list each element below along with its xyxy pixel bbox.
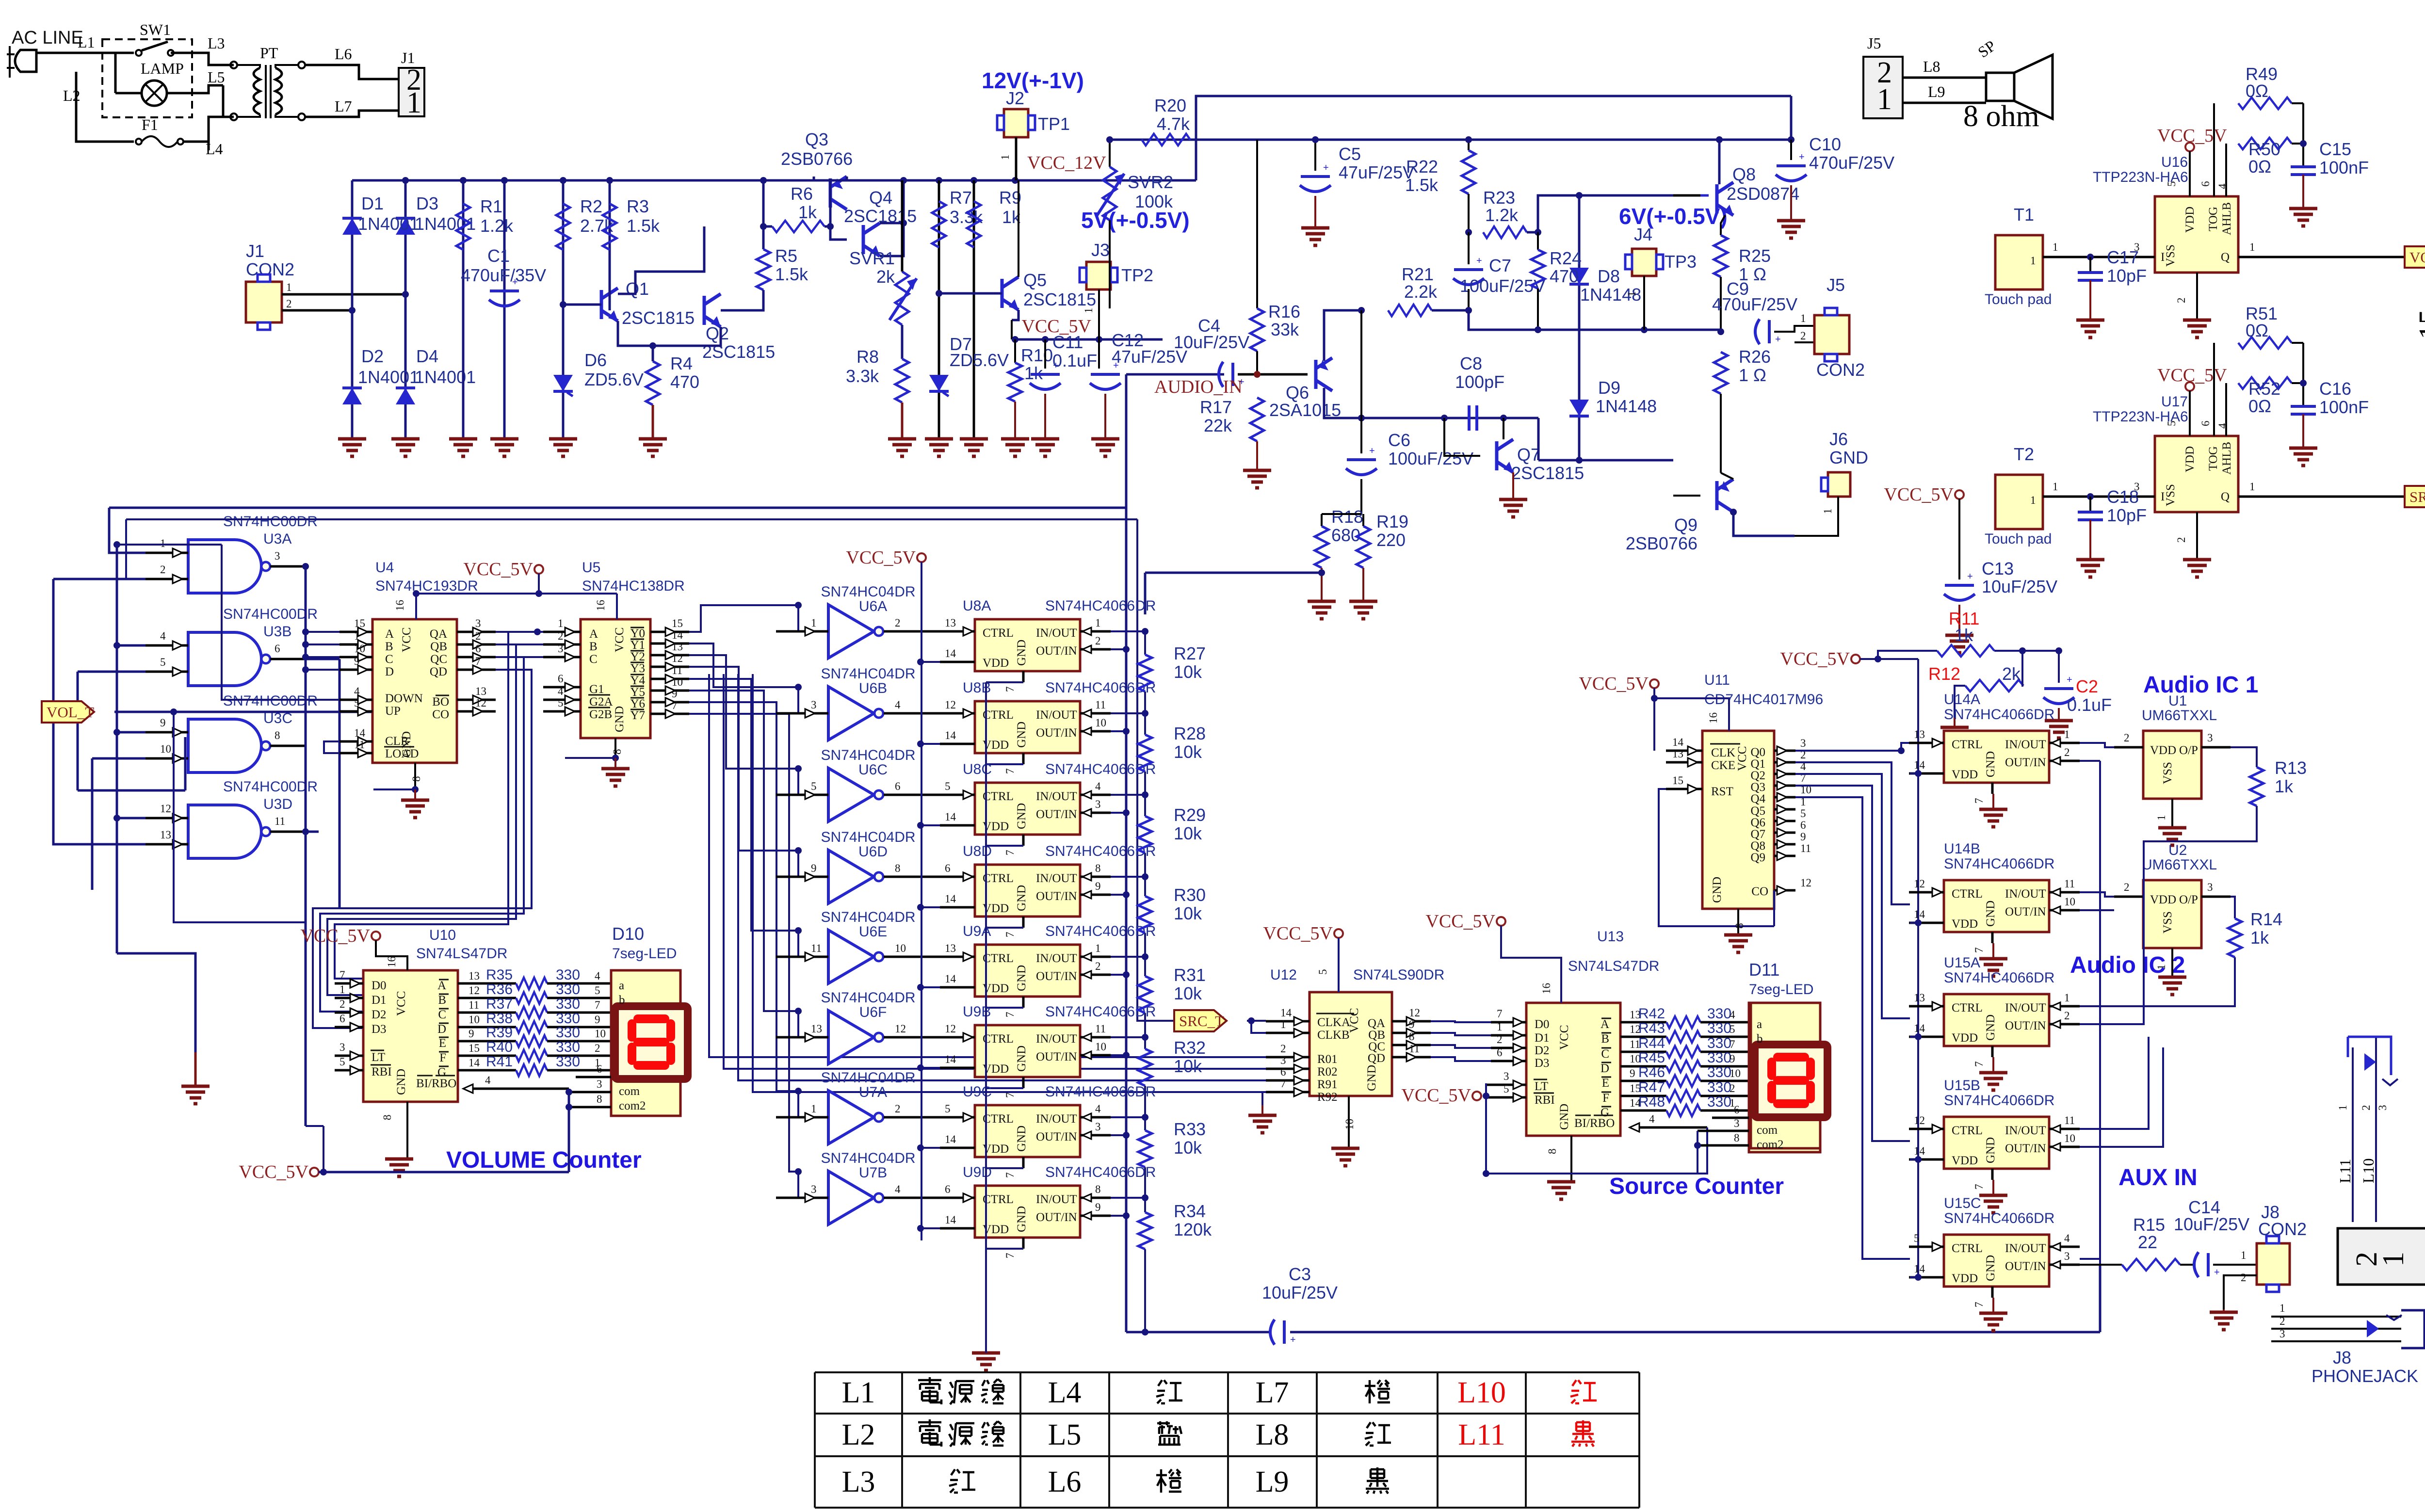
svg-text:L7: L7 xyxy=(1256,1376,1289,1409)
svg-text:+: + xyxy=(1290,1335,1296,1345)
svg-text:VCC: VCC xyxy=(395,991,408,1016)
svg-text:CTRL: CTRL xyxy=(983,952,1014,965)
svg-text:C6: C6 xyxy=(1388,430,1410,450)
svg-text:SN74HC04DR: SN74HC04DR xyxy=(821,747,915,763)
svg-text:7: 7 xyxy=(1730,1038,1735,1050)
svg-text:G2B: G2B xyxy=(589,708,612,721)
svg-text:5: 5 xyxy=(811,780,817,792)
svg-text:2: 2 xyxy=(2360,1105,2372,1111)
svg-text:9: 9 xyxy=(1095,880,1101,892)
svg-text:A: A xyxy=(385,627,394,641)
svg-text:CTRL: CTRL xyxy=(1952,1001,1983,1014)
svg-text:8: 8 xyxy=(1734,1132,1740,1144)
svg-text:11: 11 xyxy=(1095,1023,1106,1035)
svg-text:1: 1 xyxy=(811,617,817,629)
svg-text:Q: Q xyxy=(2221,490,2230,503)
svg-text:3: 3 xyxy=(1800,737,1806,749)
svg-text:0Ω: 0Ω xyxy=(2246,81,2268,101)
svg-text:11: 11 xyxy=(1095,699,1106,711)
svg-text:SVR1: SVR1 xyxy=(849,248,895,268)
svg-text:R02: R02 xyxy=(1317,1065,1338,1078)
svg-text:L6: L6 xyxy=(1048,1465,1082,1498)
svg-text:OUT/IN: OUT/IN xyxy=(1036,644,1077,658)
svg-text:J1: J1 xyxy=(246,241,264,261)
svg-text:L6: L6 xyxy=(335,45,352,63)
svg-text:A: A xyxy=(1600,1018,1609,1031)
svg-text:U6E: U6E xyxy=(859,924,887,940)
svg-text:1: 1 xyxy=(1095,942,1101,954)
svg-text:OUT/IN: OUT/IN xyxy=(1036,726,1077,740)
svg-text:SN74HC4066DR: SN74HC4066DR xyxy=(1045,1084,1156,1100)
svg-text:U13: U13 xyxy=(1597,929,1624,945)
svg-text:2SC1815: 2SC1815 xyxy=(1511,463,1584,483)
svg-text:Y2: Y2 xyxy=(630,650,645,663)
svg-text:QD: QD xyxy=(430,665,447,678)
svg-text:16: 16 xyxy=(394,600,406,611)
svg-text:10: 10 xyxy=(1343,1119,1356,1130)
svg-text:2: 2 xyxy=(160,563,166,576)
svg-text:3.3k: 3.3k xyxy=(846,366,879,386)
svg-text:R3: R3 xyxy=(627,196,649,216)
svg-text:6: 6 xyxy=(2199,421,2212,427)
svg-text:9: 9 xyxy=(1730,1053,1735,1065)
svg-text:330: 330 xyxy=(556,967,580,983)
svg-text:11: 11 xyxy=(2064,878,2075,890)
svg-text:Touch pad: Touch pad xyxy=(1985,531,2052,547)
svg-text:F: F xyxy=(439,1051,446,1064)
svg-text:OUT/IN: OUT/IN xyxy=(1036,1050,1077,1063)
svg-text:6: 6 xyxy=(1734,1104,1740,1116)
svg-text:CTRL: CTRL xyxy=(983,872,1014,885)
svg-text:1: 1 xyxy=(2053,241,2058,253)
svg-text:R27: R27 xyxy=(1174,643,1206,663)
svg-text:5: 5 xyxy=(339,1056,345,1068)
svg-text:GND: GND xyxy=(400,731,413,757)
svg-text:VDD: VDD xyxy=(983,657,1009,670)
svg-text:OUT/IN: OUT/IN xyxy=(2005,1142,2046,1155)
svg-text:D1: D1 xyxy=(361,193,384,213)
svg-text:OUT/IN: OUT/IN xyxy=(2005,756,2046,769)
svg-text:R10: R10 xyxy=(1021,345,1053,365)
svg-text:16: 16 xyxy=(595,600,607,611)
svg-text:4.7k: 4.7k xyxy=(1157,114,1190,134)
svg-text:IN/OUT: IN/OUT xyxy=(1036,708,1077,722)
svg-text:Y3: Y3 xyxy=(630,662,645,675)
svg-text:C16: C16 xyxy=(2319,379,2351,399)
svg-text:R22: R22 xyxy=(1406,157,1438,177)
svg-text:3.3k: 3.3k xyxy=(950,207,983,227)
svg-text:VDD: VDD xyxy=(2183,207,2197,233)
svg-text:CTRL: CTRL xyxy=(1952,1242,1983,1255)
svg-text:GND: GND xyxy=(613,706,626,732)
svg-text:L9: L9 xyxy=(1256,1465,1289,1498)
svg-text:Q4: Q4 xyxy=(869,188,892,208)
svg-text:VSS: VSS xyxy=(2164,244,2177,267)
svg-text:10: 10 xyxy=(2064,896,2075,908)
svg-text:330: 330 xyxy=(556,1039,580,1055)
svg-text:15: 15 xyxy=(2413,309,2425,339)
svg-text:9: 9 xyxy=(1095,1201,1101,1213)
svg-text:R20: R20 xyxy=(1154,96,1186,115)
svg-text:2: 2 xyxy=(1280,1043,1286,1055)
svg-text:OUT/IN: OUT/IN xyxy=(2005,1260,2046,1273)
svg-text:4: 4 xyxy=(1730,1009,1735,1021)
svg-text:VCC_5V: VCC_5V xyxy=(1579,674,1649,694)
svg-text:GND: GND xyxy=(1365,1065,1378,1091)
svg-text:U11: U11 xyxy=(1704,672,1730,688)
svg-text:8: 8 xyxy=(1733,923,1746,929)
svg-text:Q9: Q9 xyxy=(1674,515,1697,535)
svg-text:U15C: U15C xyxy=(1944,1195,1981,1211)
svg-text:14: 14 xyxy=(1672,736,1684,748)
svg-text:2: 2 xyxy=(2064,746,2070,758)
svg-text:2: 2 xyxy=(1497,1033,1503,1046)
svg-text:7: 7 xyxy=(1280,1078,1286,1090)
svg-text:12: 12 xyxy=(1914,878,1925,890)
svg-text:R52: R52 xyxy=(2248,379,2280,399)
svg-text:1: 1 xyxy=(2155,965,2167,970)
svg-text:10uF/25V: 10uF/25V xyxy=(2174,1214,2249,1234)
svg-text:8: 8 xyxy=(410,776,422,782)
svg-text:1: 1 xyxy=(999,155,1011,161)
svg-text:O/P: O/P xyxy=(2179,744,2198,757)
svg-text:14: 14 xyxy=(945,973,956,985)
svg-text:14: 14 xyxy=(1914,1022,1925,1034)
svg-text:+: + xyxy=(1323,162,1329,173)
svg-text:R48: R48 xyxy=(1638,1094,1665,1110)
svg-text:10: 10 xyxy=(2064,1132,2075,1144)
svg-text:E: E xyxy=(1602,1077,1609,1090)
svg-text:9: 9 xyxy=(1630,1067,1635,1079)
svg-text:7: 7 xyxy=(339,969,345,981)
svg-text:+: + xyxy=(1369,446,1375,456)
svg-text:Q2: Q2 xyxy=(1750,769,1765,782)
svg-text:2: 2 xyxy=(558,630,564,642)
svg-text:2: 2 xyxy=(475,630,481,642)
svg-text:R18: R18 xyxy=(1331,507,1363,527)
svg-text:VDD: VDD xyxy=(1952,1272,1978,1285)
svg-text:11: 11 xyxy=(275,815,285,827)
svg-text:6: 6 xyxy=(1800,819,1806,831)
svg-text:12: 12 xyxy=(160,803,171,815)
svg-text:12: 12 xyxy=(469,984,480,997)
svg-text:VDD: VDD xyxy=(1952,768,1978,781)
svg-text:16: 16 xyxy=(1707,712,1719,724)
svg-text:GND: GND xyxy=(1015,640,1028,666)
svg-text:2SB0766: 2SB0766 xyxy=(781,149,853,169)
svg-text:14: 14 xyxy=(1280,1007,1292,1019)
svg-text:Y7: Y7 xyxy=(630,709,645,722)
svg-text:R50: R50 xyxy=(2248,139,2280,159)
svg-text:J5: J5 xyxy=(1867,34,1881,52)
svg-text:2: 2 xyxy=(1730,1082,1735,1094)
svg-text:CTRL: CTRL xyxy=(983,790,1014,803)
svg-text:1N4001: 1N4001 xyxy=(415,367,476,387)
svg-text:11: 11 xyxy=(354,739,365,751)
svg-text:SN74HC4066DR: SN74HC4066DR xyxy=(1944,707,2054,723)
svg-text:2: 2 xyxy=(2175,537,2187,543)
svg-text:1: 1 xyxy=(406,86,421,119)
svg-text:Q5: Q5 xyxy=(1750,804,1765,818)
svg-text:13: 13 xyxy=(811,1023,822,1035)
svg-text:8: 8 xyxy=(895,862,901,874)
svg-text:L5: L5 xyxy=(208,68,225,86)
svg-text:D3: D3 xyxy=(416,193,438,213)
svg-text:GND: GND xyxy=(1015,885,1028,911)
svg-text:100pF: 100pF xyxy=(1455,372,1504,392)
svg-text:SN74HC4066DR: SN74HC4066DR xyxy=(1944,856,2054,872)
svg-text:13: 13 xyxy=(945,942,956,954)
svg-text:SN74HC04DR: SN74HC04DR xyxy=(821,1150,915,1166)
svg-text:R21: R21 xyxy=(1402,264,1434,284)
svg-text:4: 4 xyxy=(1095,1103,1101,1115)
svg-text:1: 1 xyxy=(558,617,564,629)
svg-text:7: 7 xyxy=(1004,932,1016,938)
svg-text:1: 1 xyxy=(1083,308,1095,314)
svg-text:5: 5 xyxy=(160,656,166,668)
svg-text:13: 13 xyxy=(1914,992,1925,1004)
svg-text:GND: GND xyxy=(1015,1206,1028,1232)
svg-text:CKE: CKE xyxy=(1711,759,1735,772)
svg-text:6: 6 xyxy=(945,1183,951,1195)
svg-text:AUX IN: AUX IN xyxy=(2118,1165,2198,1190)
svg-text:IN/OUT: IN/OUT xyxy=(2005,1001,2046,1014)
svg-text:15: 15 xyxy=(354,617,365,629)
svg-text:3: 3 xyxy=(1503,1070,1509,1082)
svg-text:SN74HC04DR: SN74HC04DR xyxy=(821,829,915,845)
svg-text:GND: GND xyxy=(1015,722,1028,748)
svg-text:13: 13 xyxy=(672,641,683,653)
svg-text:13: 13 xyxy=(469,970,480,982)
svg-text:330: 330 xyxy=(1707,1079,1731,1095)
svg-text:10: 10 xyxy=(1730,1067,1741,1079)
svg-text:5: 5 xyxy=(1730,1023,1735,1035)
svg-text:5: 5 xyxy=(558,697,564,709)
svg-text:14: 14 xyxy=(469,1057,480,1069)
svg-text:VCC_5V: VCC_5V xyxy=(1425,911,1495,932)
svg-text:3: 3 xyxy=(475,617,481,629)
svg-text:C8: C8 xyxy=(1460,354,1482,373)
svg-text:U14A: U14A xyxy=(1944,692,1980,708)
svg-text:VDD: VDD xyxy=(2183,446,2197,472)
svg-text:3: 3 xyxy=(2064,1250,2070,1262)
svg-text:CTRL: CTRL xyxy=(983,627,1014,640)
svg-text:16: 16 xyxy=(386,956,398,967)
svg-text:14: 14 xyxy=(672,629,683,641)
svg-text:9: 9 xyxy=(160,717,166,729)
svg-text:Audio IC 1: Audio IC 1 xyxy=(2143,672,2258,698)
svg-text:U8C: U8C xyxy=(963,761,992,777)
svg-text:Q9: Q9 xyxy=(1750,851,1765,864)
svg-text:DOWN: DOWN xyxy=(385,692,423,705)
svg-text:ZD5.6V: ZD5.6V xyxy=(584,370,644,389)
svg-text:GND: GND xyxy=(1984,1255,1997,1281)
svg-text:5: 5 xyxy=(1914,1232,1920,1244)
svg-text:1.2k: 1.2k xyxy=(1485,205,1519,225)
svg-text:14: 14 xyxy=(945,811,956,823)
svg-text:22: 22 xyxy=(2138,1232,2157,1252)
svg-text:1: 1 xyxy=(2155,815,2167,821)
svg-text:1: 1 xyxy=(2337,1105,2349,1111)
svg-text:4: 4 xyxy=(895,699,901,711)
svg-text:CO: CO xyxy=(432,708,449,721)
svg-text:3: 3 xyxy=(1095,798,1101,810)
svg-text:3: 3 xyxy=(1095,1121,1101,1133)
svg-text:U9C: U9C xyxy=(963,1084,992,1100)
svg-text:L11: L11 xyxy=(2336,1159,2354,1183)
svg-text:0.1uF: 0.1uF xyxy=(2067,695,2112,715)
svg-text:SVR2: SVR2 xyxy=(1128,172,1173,192)
svg-text:1: 1 xyxy=(339,983,345,996)
svg-text:0.1uF: 0.1uF xyxy=(1052,351,1097,370)
svg-text:QA: QA xyxy=(430,627,447,641)
svg-text:C: C xyxy=(385,653,393,666)
svg-text:LT: LT xyxy=(1535,1080,1548,1093)
svg-text:8: 8 xyxy=(611,749,623,755)
svg-text:J8: J8 xyxy=(2333,1348,2351,1367)
svg-text:1: 1 xyxy=(2030,255,2036,267)
svg-text:U3B: U3B xyxy=(263,624,291,640)
svg-text:3: 3 xyxy=(597,1078,602,1090)
svg-text:R14: R14 xyxy=(2250,909,2282,929)
svg-text:3: 3 xyxy=(811,699,817,711)
svg-text:D3: D3 xyxy=(372,1023,387,1036)
svg-text:10pF: 10pF xyxy=(2107,505,2147,525)
svg-text:D1: D1 xyxy=(1535,1031,1550,1045)
svg-text:7: 7 xyxy=(1004,1012,1016,1018)
svg-text:C17: C17 xyxy=(2107,247,2139,267)
svg-text:13: 13 xyxy=(475,685,486,697)
svg-text:O/P: O/P xyxy=(2179,893,2198,906)
svg-text:13: 13 xyxy=(945,617,956,629)
svg-text:Y1: Y1 xyxy=(630,639,645,652)
svg-text:R36: R36 xyxy=(486,981,513,997)
svg-text:R30: R30 xyxy=(1174,885,1206,905)
svg-text:UM66TXXL: UM66TXXL xyxy=(2142,708,2217,724)
svg-text:C13: C13 xyxy=(1982,559,2014,579)
svg-text:1: 1 xyxy=(2064,728,2070,740)
svg-text:VSS: VSS xyxy=(2164,484,2177,506)
svg-text:Q8: Q8 xyxy=(1750,839,1765,853)
svg-text:2SC1815: 2SC1815 xyxy=(622,308,695,328)
svg-text:D: D xyxy=(437,1023,446,1036)
svg-text:12: 12 xyxy=(945,1023,956,1035)
svg-text:2k: 2k xyxy=(2002,664,2021,684)
svg-text:7: 7 xyxy=(1004,687,1016,692)
svg-text:14: 14 xyxy=(945,893,956,905)
svg-text:RBI: RBI xyxy=(1535,1094,1555,1107)
svg-text:CO: CO xyxy=(1751,885,1768,898)
svg-text:R31: R31 xyxy=(1174,965,1206,985)
svg-text:7: 7 xyxy=(1973,948,1985,953)
svg-text:2: 2 xyxy=(2124,881,2130,893)
svg-text:2: 2 xyxy=(1095,635,1101,647)
svg-text:2SD0874: 2SD0874 xyxy=(1727,184,1799,204)
svg-text:IN/OUT: IN/OUT xyxy=(2005,1242,2046,1255)
svg-text:1.5k: 1.5k xyxy=(775,264,808,284)
svg-text:2.2k: 2.2k xyxy=(1404,282,1438,302)
svg-text:9: 9 xyxy=(354,655,360,667)
svg-text:U8A: U8A xyxy=(963,598,991,614)
svg-text:R1: R1 xyxy=(480,196,502,216)
svg-text:QB: QB xyxy=(1368,1029,1385,1042)
svg-text:1 Ω: 1 Ω xyxy=(1739,365,1766,385)
svg-text:SN74HC138DR: SN74HC138DR xyxy=(582,578,685,594)
svg-text:4: 4 xyxy=(160,630,166,642)
svg-text:10: 10 xyxy=(160,743,171,755)
svg-text:1: 1 xyxy=(2249,481,2255,493)
svg-text:C11: C11 xyxy=(1052,332,1083,352)
svg-text:Q7: Q7 xyxy=(1517,445,1540,465)
svg-text:L9: L9 xyxy=(1928,83,1945,100)
svg-text:8: 8 xyxy=(1095,862,1101,874)
svg-text:7: 7 xyxy=(1973,798,1985,804)
svg-text:10k: 10k xyxy=(1174,983,1202,1003)
svg-text:GND: GND xyxy=(1984,1014,1997,1041)
svg-text:IN/OUT: IN/OUT xyxy=(1036,1193,1077,1206)
svg-text:330: 330 xyxy=(556,996,580,1012)
svg-text:VCC_5V: VCC_5V xyxy=(1780,649,1850,669)
svg-text:SN74HC04DR: SN74HC04DR xyxy=(821,909,915,925)
svg-text:TOG: TOG xyxy=(2207,207,2220,231)
svg-text:SN74HC4066DR: SN74HC4066DR xyxy=(1944,1210,2054,1226)
svg-text:2: 2 xyxy=(895,617,901,629)
svg-text:GND: GND xyxy=(1829,448,1868,467)
svg-text:220: 220 xyxy=(1376,530,1406,550)
svg-text:GND: GND xyxy=(1711,877,1724,903)
svg-text:U16: U16 xyxy=(2161,154,2188,170)
svg-text:12: 12 xyxy=(475,697,486,709)
svg-text:7: 7 xyxy=(1004,1093,1016,1098)
svg-text:4: 4 xyxy=(2216,183,2229,189)
svg-text:14: 14 xyxy=(1914,908,1925,920)
svg-text:U4: U4 xyxy=(375,560,394,576)
svg-text:L10: L10 xyxy=(1457,1376,1506,1409)
svg-text:AHLB: AHLB xyxy=(2220,202,2233,235)
svg-text:2: 2 xyxy=(2241,1271,2247,1284)
svg-text:VOL_T: VOL_T xyxy=(47,704,94,721)
svg-text:L7: L7 xyxy=(335,97,352,115)
svg-text:R42: R42 xyxy=(1638,1006,1665,1022)
svg-text:9: 9 xyxy=(595,1013,600,1026)
svg-text:VCC_5V: VCC_5V xyxy=(300,926,370,946)
svg-text:R92: R92 xyxy=(1317,1091,1338,1104)
svg-text:IN/OUT: IN/OUT xyxy=(1036,1112,1077,1126)
svg-text:U17: U17 xyxy=(2161,394,2188,410)
svg-text:CTRL: CTRL xyxy=(983,708,1014,722)
svg-text:OUT/IN: OUT/IN xyxy=(1036,1211,1077,1224)
svg-text:AHLB: AHLB xyxy=(2220,442,2233,475)
svg-text:QD: QD xyxy=(1368,1052,1385,1065)
svg-text:A: A xyxy=(437,979,446,992)
svg-text:11: 11 xyxy=(1800,842,1811,854)
svg-text:2: 2 xyxy=(2124,732,2130,744)
svg-text:3: 3 xyxy=(1734,1117,1740,1129)
svg-text:L8: L8 xyxy=(1923,58,1940,75)
svg-text:R12: R12 xyxy=(1928,664,1960,684)
svg-text:CLKA: CLKA xyxy=(1317,1016,1350,1029)
svg-text:U3A: U3A xyxy=(263,531,291,547)
svg-text:11: 11 xyxy=(811,942,822,954)
svg-text:5: 5 xyxy=(354,697,360,709)
svg-text:5: 5 xyxy=(945,1103,951,1115)
svg-text:VCC_5V: VCC_5V xyxy=(1263,923,1333,944)
svg-text:330: 330 xyxy=(1707,1020,1731,1036)
svg-text:com2: com2 xyxy=(619,1099,646,1112)
svg-text:9: 9 xyxy=(1800,831,1806,843)
svg-text:SN74HC00DR: SN74HC00DR xyxy=(223,779,318,795)
svg-text:IN/OUT: IN/OUT xyxy=(1036,1032,1077,1046)
